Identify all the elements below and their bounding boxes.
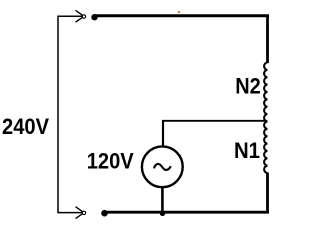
wire bottom arrow shaft [57, 212, 82, 214]
wire source top stem [162, 121, 164, 147]
node B (bottom junction dot) [101, 210, 108, 217]
node C (source-to-bottom-rail junction dot) [160, 211, 165, 216]
svg-text:N1: N1 [234, 138, 260, 163]
wire right vertical lower (winding bottom to bottom rail) [266, 173, 269, 214]
AC source V1 circle [142, 146, 183, 187]
wire tap to winding junction [162, 120, 267, 122]
svg-text:N2: N2 [235, 74, 261, 99]
wire top horizontal [94, 14, 269, 17]
autotransformer winding N2 (upper coil section) [264, 63, 267, 122]
wire top arrow shaft [57, 15, 82, 17]
terminal circle bottom arrow tip [82, 211, 85, 214]
arrowhead top (points right) [76, 10, 84, 22]
svg-text:120V: 120V [87, 149, 134, 174]
speck artifact [178, 11, 180, 13]
wire right vertical upper (to winding top) [266, 16, 269, 63]
terminal circle top arrow tip [82, 15, 85, 18]
wire source bottom stem [161, 187, 164, 213]
node A (top junction dot) [91, 14, 97, 20]
AC sine symbol [154, 164, 171, 170]
arrowhead bottom (points right) [76, 207, 84, 219]
autotransformer winding N1 (lower coil section) [264, 121, 267, 173]
svg-text:240V: 240V [2, 114, 49, 139]
wire bottom horizontal [104, 211, 269, 214]
wire left vertical (240V measurement leg) [57, 16, 59, 212]
